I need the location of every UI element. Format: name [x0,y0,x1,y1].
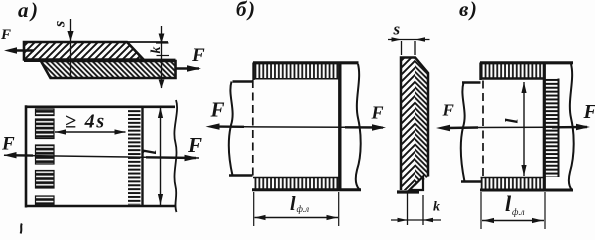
weld triangle bottom (white) [410,177,424,191]
svg-text:≥ 4s: ≥ 4s [65,111,106,133]
svg-text:F: F [210,98,225,122]
svg-text:s: s [52,21,69,28]
hidden edge dashed (v) [482,81,484,179]
intermittent weld segments (plan a) [36,109,55,116]
svg-text:s: s [393,20,401,39]
dimension l fl (v) [481,191,545,229]
dimension s (strip top) [388,20,430,56]
bottom edge thick [397,190,419,193]
svg-text:F: F [1,134,15,155]
right plate wavy edge (v) [569,64,574,190]
svg-text:F: F [442,101,455,120]
plan view a: wavy break edge [174,100,177,212]
left plate (v) [461,83,482,182]
svg-text:l: l [140,149,160,154]
right vertical edge of overlap (b) [338,63,341,191]
svg-text:F: F [371,103,384,123]
plan view a: right edge of covered plate [141,107,143,206]
dimension l fl (b) [254,192,339,226]
plan view a: top plate outline [25,105,175,207]
bottom flank weld band (b) [253,178,341,189]
svg-text:F: F [0,27,11,43]
upper plate (side view a) [24,42,144,60]
svg-text:в): в) [459,0,477,21]
top flank weld band (b) [254,63,342,79]
top flank weld band (v) [481,63,545,78]
svg-text:а): а) [18,0,38,22]
break tick bottom left [21,224,22,234]
centre line (b) [244,126,345,129]
lower plate (side view a) [41,61,176,78]
right plate wavy edge (b) [356,64,361,189]
svg-text:ф.л: ф.л [297,204,310,214]
svg-text:l: l [505,191,512,216]
svg-text:l: l [502,118,522,123]
dimension s (plate thickness, view a) [52,19,74,78]
svg-text:ф.л: ф.л [512,207,525,217]
strip left thick edge (v) [543,63,546,191]
extension of top edge to k line [127,41,168,43]
centre line (v) [478,126,552,128]
svg-text:l: l [290,193,296,215]
top edge (b) [253,61,359,64]
svg-text:F: F [191,45,205,66]
hidden edge dashed (b) [252,80,254,177]
frontal weld strip (v) [546,79,559,178]
dimension l (plan a) [140,107,163,205]
dimension >=4s [55,111,126,135]
svg-text:F: F [187,133,202,157]
cover strip side view [397,57,428,192]
dimension k (weld leg, view a) [149,26,169,89]
dimension k (strip bottom) [391,193,441,225]
bottom flank weld band (v) [481,178,545,189]
frontal weld strip (plan a) [128,109,141,205]
centre line (plan a) [4,155,199,158]
svg-text:F: F [583,101,595,123]
top edge (v) [480,61,573,64]
svg-text:k: k [433,200,440,215]
dimension l (v inner) [502,82,527,176]
svg-text:б): б) [236,0,255,21]
left plate (b) [229,82,254,176]
svg-text:k: k [149,47,164,54]
